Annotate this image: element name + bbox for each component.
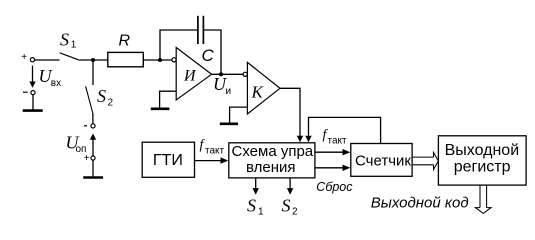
svg-text:2: 2 [108, 98, 114, 109]
wire S1 to node A [80, 59, 108, 61]
terminal circle Uop top [91, 124, 95, 128]
svg-text:1: 1 [71, 40, 77, 51]
svg-text:И: И [183, 67, 197, 84]
switch S2 blade [86, 86, 93, 113]
wire feedback up from node B [160, 30, 198, 60]
arrowhead GTI to control [221, 157, 229, 163]
op-amp U1 triangle [176, 48, 211, 101]
svg-text:вх: вх [51, 78, 61, 89]
minus mark Uvx bottom [23, 91, 28, 93]
terminal circle Uvx bottom [31, 91, 35, 95]
wire control to counter lower [315, 167, 344, 169]
wire GTI to control [195, 160, 222, 162]
svg-text:S: S [60, 30, 69, 50]
ground (Uop) [83, 176, 103, 179]
arrowhead control to counter lower [343, 165, 351, 171]
wire op-amp U1 non-inverting input to ground [160, 91, 176, 108]
wire S2 to Uop terminal [92, 114, 94, 124]
arrowhead f_takt feedback into control top [305, 136, 311, 143]
bus counter to register [412, 152, 438, 169]
block output register [438, 136, 526, 185]
svg-text:1: 1 [258, 206, 264, 217]
block GTI [142, 142, 194, 177]
resistor R [108, 52, 144, 66]
terminal circle Uop bottom [91, 156, 95, 160]
svg-text:и: и [226, 86, 232, 97]
op-amp U1 input circle [172, 58, 176, 62]
svg-text:Выходной: Выходной [445, 142, 520, 159]
arrowhead S1 output [253, 188, 259, 195]
arrowhead Uop up [90, 134, 96, 140]
ground (op-amp) [151, 108, 170, 111]
wire node A down to S2 [92, 60, 94, 85]
svg-text:R: R [119, 33, 131, 50]
wire Uop arrow shaft [92, 139, 94, 156]
svg-text:вления: вления [246, 159, 296, 176]
node A junction dot [91, 58, 95, 62]
ground (Uvx) [23, 109, 43, 112]
wire op-amp output to comparator [212, 73, 244, 75]
svg-text:+: + [21, 52, 27, 63]
wire S1 control output [255, 178, 257, 189]
svg-text:Схема упра: Схема упра [232, 143, 314, 160]
svg-text:К: К [251, 82, 265, 101]
terminal circle Uvx top [30, 58, 34, 62]
wire Uvx lower terminal to ground [32, 95, 34, 110]
capacitor C plates [198, 16, 204, 44]
wire node A to resistor R [143, 59, 172, 61]
block control (Schema upravleniya) [229, 143, 315, 178]
svg-text:ГТИ: ГТИ [153, 152, 183, 169]
arrowhead comparator output into control top [297, 136, 303, 143]
ground (comparator) [220, 123, 238, 126]
svg-text:регистр: регистр [454, 158, 511, 175]
svg-text:S: S [97, 86, 106, 106]
wire comparator output to control [280, 88, 300, 136]
comparator K input circle [243, 72, 247, 76]
switch S1 blade [60, 53, 80, 61]
minus mark Uop top [84, 125, 87, 127]
wire Uop lower terminal to ground [92, 160, 94, 177]
wire comparator non-inverting input to ground [230, 107, 248, 123]
node Ui junction dot [219, 72, 223, 76]
bus register output (vykhodnoy kod) [475, 185, 491, 213]
wire S2 control output [289, 178, 291, 189]
arrowhead S2 output [287, 188, 293, 195]
wire capacitor C to feedback right [203, 30, 221, 74]
block counter (Schetchik) [351, 144, 412, 177]
svg-text:Выходной код: Выходной код [371, 194, 469, 211]
svg-text:такт: такт [205, 145, 225, 156]
wire f_takt feedback from counter top [309, 117, 381, 143]
wire terminal to S1 [35, 59, 60, 61]
arrowhead Uvx down [29, 82, 35, 88]
svg-text:2: 2 [292, 206, 298, 217]
comparator K triangle [247, 62, 280, 114]
svg-text:S: S [282, 195, 291, 215]
svg-text:S: S [247, 195, 256, 215]
svg-text:Счетчик: Счетчик [355, 152, 411, 169]
wire Uvx arrow shaft [32, 66, 34, 83]
node B junction dot [158, 58, 162, 62]
wire control to counter upper [315, 151, 344, 153]
svg-text:C: C [202, 46, 215, 65]
svg-text:Сброс: Сброс [316, 180, 353, 194]
svg-text:+: + [84, 153, 90, 164]
svg-text:такт: такт [328, 135, 348, 146]
arrowhead control to counter upper [343, 149, 351, 155]
